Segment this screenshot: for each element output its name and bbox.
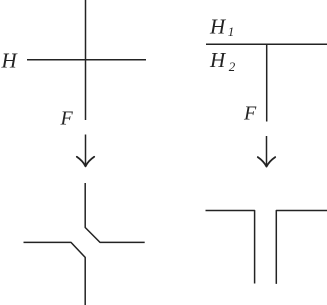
wire: top-right vertical strand [266, 44, 268, 121]
svg-text:H: H [209, 48, 227, 72]
svg-text:2: 2 [229, 59, 236, 74]
wire: top-left vertical strand [85, 0, 87, 120]
wire: bottom-left strand from left bending to bottom [24, 242, 86, 305]
svg-text:1: 1 [228, 24, 235, 39]
wire: bottom-right left corner strand [206, 211, 255, 284]
svg-text:H: H [1, 49, 19, 73]
wire: bottom-left strand from top bending to right [85, 183, 145, 242]
arrow F (left): head [77, 157, 94, 167]
svg-text:F: F [243, 102, 257, 124]
arrow F (right): shaft [266, 136, 268, 166]
arrow F (right): head [258, 157, 275, 167]
wire: top-right horizontal strand [206, 43, 327, 45]
wire: top-left horizontal strand [27, 59, 146, 61]
svg-text:H: H [209, 14, 227, 38]
svg-text:F: F [60, 107, 74, 129]
wire: bottom-right right corner strand [276, 211, 327, 284]
arrow F (left): shaft [85, 135, 87, 167]
